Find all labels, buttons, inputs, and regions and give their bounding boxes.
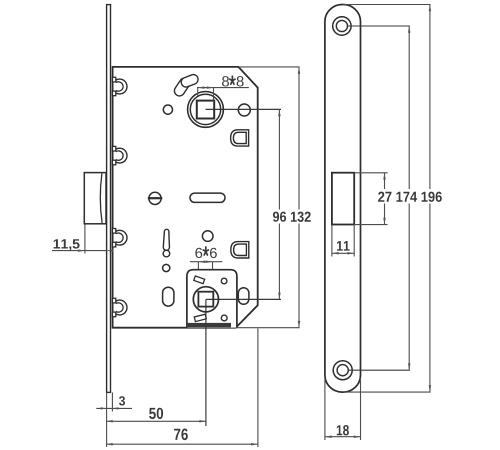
196 dim line	[429, 5, 431, 393]
top screw hole inner	[336, 20, 347, 31]
centre line from top hub to 96 dim	[206, 108, 282, 110]
plate small circle top	[221, 278, 227, 284]
small circle right of hub	[238, 104, 250, 116]
3 dimension	[96, 407, 132, 409]
plate bottom extension line	[343, 391, 431, 393]
27 dimension extension lines	[354, 172, 387, 174]
tab 2	[194, 314, 206, 321]
clip 3	[112, 229, 127, 247]
teardrop pin	[163, 229, 169, 250]
body bottom extension line	[236, 327, 300, 329]
right vertical oval	[238, 288, 249, 305]
latch opening on plate	[332, 173, 354, 225]
centre line from follower to 96 dim	[206, 298, 281, 300]
small circle below teardrop	[163, 264, 170, 271]
11 dimension	[332, 225, 354, 257]
bottom hole centre line to 174 dim	[343, 369, 410, 371]
faceplate side view	[106, 5, 111, 393]
174 dim line	[408, 26, 410, 370]
plate top extension line	[343, 4, 431, 6]
11,5 dimension	[84, 225, 86, 254]
27 174 196 label	[376, 189, 445, 204]
8*8 dimension	[197, 88, 249, 101]
D-hole 1	[231, 130, 249, 146]
top hub inner circle	[190, 94, 220, 124]
lock body outline	[113, 67, 258, 328]
clip 1	[112, 77, 127, 95]
top hub outer circle	[188, 92, 224, 128]
strike plate front view	[325, 5, 361, 393]
plate small circle bottom	[221, 315, 227, 321]
screw head	[149, 192, 161, 204]
50 dimension	[106, 420, 206, 422]
centre line follower down to 50 dim	[205, 299, 207, 426]
6*6 dimension	[190, 262, 222, 292]
small circle left of hub	[163, 105, 172, 114]
left vertical oval	[163, 287, 174, 306]
clip 4	[112, 298, 127, 316]
76 dimension	[257, 329, 259, 448]
latch bolt side view	[84, 173, 106, 224]
top screw hole outer	[333, 17, 351, 35]
clip 2	[112, 146, 127, 164]
top hole centre line to 174 dim	[342, 25, 410, 27]
follower 6x6 square	[198, 292, 213, 307]
bottom screw hole outer	[333, 361, 352, 380]
27 dim line	[384, 173, 386, 225]
follower plate	[187, 270, 237, 328]
bottom screw hole inner	[337, 365, 348, 376]
teardrop end circle	[163, 250, 170, 257]
tab 1	[194, 276, 205, 284]
top hub 8x8 square	[197, 101, 214, 119]
follower circle	[193, 287, 218, 312]
body top extension line	[238, 66, 299, 68]
banana slot	[180, 79, 194, 90]
circle above 6*6	[202, 231, 213, 242]
132 dim line	[298, 67, 300, 328]
horizontal slot	[190, 193, 225, 202]
96 132 label	[271, 210, 314, 224]
96 dim line	[278, 109, 280, 299]
dark bottom bar	[188, 323, 231, 327]
D-hole 2	[231, 242, 249, 258]
faceplate bottom extension lines	[106, 392, 108, 447]
18 dimension	[325, 378, 361, 440]
